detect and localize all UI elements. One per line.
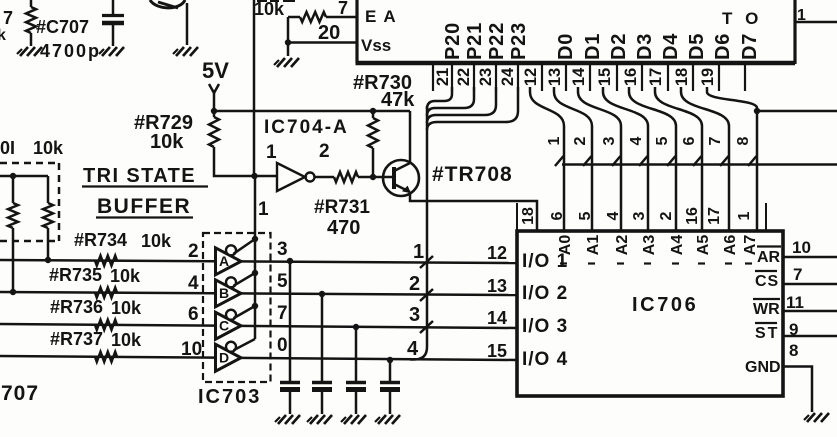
wire ST to right edge [783,335,837,338]
wire CS to right edge [783,283,837,286]
wire P22 curve to bus [427,87,496,123]
svg-text:10k: 10k [110,266,141,286]
resistor #R735 10k [95,288,117,298]
svg-text:14: 14 [487,308,507,328]
svg-text:24: 24 [499,67,517,86]
svg-text:Vss: Vss [361,36,391,55]
ground for capacitor on net 2 [310,415,318,424]
ground below top-left resistor [20,47,28,56]
bus entry tick net 7 on D6 [720,156,729,166]
wire enable branch to buffer D [234,339,256,350]
svg-text:470: 470 [327,217,360,239]
resistor (partial, top-left) with cut-off label 7 / k [26,7,36,33]
svg-text:D0: D0 [555,33,577,60]
svg-text:I/O 1: I/O 1 [522,251,568,272]
svg-text:2: 2 [572,136,589,145]
svg-text:4: 4 [407,338,419,360]
tri-state buffer A (IC703) [216,248,242,275]
wire enable branch to buffer B [234,273,256,286]
bus entry tick net 3 [420,321,433,333]
svg-text:3: 3 [409,304,420,326]
svg-text:CS: CS [755,273,779,290]
svg-text:#R736: #R736 [50,297,103,317]
svg-text:15: 15 [596,68,614,86]
svg-text:20: 20 [318,22,340,44]
svg-text:0: 0 [277,335,288,356]
svg-text:10k: 10k [254,0,285,19]
wire D2 from top IC pin to IC706 [578,87,621,231]
svg-text:D3: D3 [634,33,656,60]
svg-text:I/O 2: I/O 2 [522,283,568,304]
svg-text:6: 6 [549,211,566,220]
wire-number labels 1-8 on D0-D7 (rotated) [546,136,563,145]
wire P23 curve to bus [427,87,518,130]
wire net 3 right segment to IC706 [240,326,517,328]
ground below capacitor C707 [102,47,110,56]
ground for capacitor on net 3 [344,415,352,424]
wire rail inside left dashed box [0,175,48,178]
port labels P20-P23 (rotated) [442,22,464,60]
svg-text:P22: P22 [486,22,508,60]
tri-state buffer D (IC703) [216,344,242,371]
wire P20 curve to bus [427,87,452,109]
svg-text:3: 3 [631,211,648,220]
wire enable line from inverter-input node down into IC703 [254,176,257,339]
svg-text:7: 7 [707,136,724,145]
wire D5 from top IC pin to IC706 [655,87,702,231]
svg-text:5: 5 [277,271,288,292]
resistor #R736 10k [95,320,117,330]
wire Vss pin 20 to ground node [287,17,290,56]
wire EA pin 7 to IC [288,16,300,19]
svg-text:16: 16 [622,68,640,86]
wire WR to right edge [783,310,837,313]
wire enable branch to buffer C [234,306,256,318]
svg-text:D1: D1 [582,33,604,60]
svg-text:3: 3 [601,136,618,145]
svg-text:5: 5 [577,211,594,220]
wire R729 bottom to inverter input junction [214,147,255,176]
svg-text:18: 18 [520,207,537,225]
svg-text:10k: 10k [33,138,64,158]
svg-text:3: 3 [277,239,288,260]
svg-text:#R737: #R737 [50,329,103,349]
svg-text:10k: 10k [111,330,142,350]
wire net 1 left segment (input line) [0,260,214,261]
svg-text:23: 23 [477,68,495,86]
svg-text:IC704-A: IC704-A [264,117,349,138]
svg-text:22: 22 [455,68,473,86]
data labels D0-D7 (rotated) [555,33,577,60]
bus to right edge (nets 1-8) [562,163,837,166]
bus entry tick net 1 on D0 [555,156,564,166]
svg-text:2: 2 [409,273,420,295]
svg-text:D5: D5 [686,33,708,60]
svg-text:1: 1 [797,7,806,24]
svg-text:#TR708: #TR708 [432,163,513,186]
bus entry tick net 1 [420,256,433,268]
svg-text:1: 1 [258,199,269,220]
pin cell separators of top IC [432,63,434,91]
wire inverter input [254,175,277,178]
capacitor on net 3 [353,324,359,330]
svg-text:4: 4 [628,136,645,145]
ground for Vss / R728 [277,58,285,67]
resistor left pull-up B [47,176,50,203]
svg-text:#C707: #C707 [36,17,89,37]
svg-text:2: 2 [658,211,675,220]
address labels A0-A7 (rotated) [557,235,574,256]
svg-text:10k: 10k [150,131,184,153]
ground for IC706 GND [807,413,815,422]
wire emitter of partial transistor down [186,3,189,45]
wire net 1 right segment to IC706 [240,261,517,263]
wire net 3 left segment (input line) [0,324,214,326]
svg-text:A4: A4 [669,235,686,256]
svg-text:7: 7 [793,265,802,284]
IC706 pin numbers 18,6,5,4,3,2,16,17,1 (rotated) [520,207,537,225]
bus entry tick net 6 on D5 [693,156,702,166]
svg-text:ST: ST [755,325,779,342]
svg-text:A5: A5 [695,235,712,256]
svg-text:16: 16 [684,207,701,225]
wire net 4 right segment to IC706 [240,358,517,360]
svg-text:E A: E A [365,7,397,26]
dashed box IC703 [203,233,271,382]
svg-text:k: k [0,27,6,44]
wire 5V rail to transistor collector [214,110,410,113]
svg-text:2: 2 [188,241,199,262]
svg-text:I/O 4: I/O 4 [522,349,568,370]
svg-text:6: 6 [681,136,698,145]
svg-text:10: 10 [181,339,202,360]
wire AR to right edge [783,256,837,259]
svg-text:4: 4 [188,273,199,294]
capacitor on net 1 [287,258,293,264]
svg-text:1: 1 [266,142,277,163]
svg-text:I/O 3: I/O 3 [522,316,568,337]
IC top microcontroller outline [355,0,358,63]
tri-state buffer B (IC703) [216,280,242,307]
capacitor #C707 4700p [112,0,115,14]
wire net 4 left segment (input line) [0,356,214,358]
svg-text:5V: 5V [202,58,229,83]
svg-text:19: 19 [699,68,717,86]
svg-text:707: 707 [1,382,39,405]
svg-text:IC703: IC703 [198,386,261,408]
svg-text:13: 13 [487,276,507,296]
wire emitter down and right to IC706 pin 18 [410,192,537,231]
svg-text:10k: 10k [141,231,172,251]
svg-text:47k: 47k [381,89,415,111]
svg-text:GND: GND [745,359,781,376]
resistor #R728 10k on EA pin 7 [257,0,267,2]
svg-text:15: 15 [487,341,507,361]
bus vertical line (nets 1-4) [410,106,427,360]
wire enable branch to buffer A [234,239,256,254]
wire D4 from top IC pin to IC706 [629,87,676,231]
svg-text:13: 13 [546,68,564,86]
transistor (partial at top edge) [150,0,185,8]
svg-text:A3: A3 [641,235,658,256]
enable bubble buffer B [226,277,236,287]
tri-state buffer C (IC703) [216,312,242,339]
svg-text:11: 11 [786,293,804,312]
wire inverter output to R731 [315,176,335,179]
pin numbers 21 22 23 24 / 12-19 (rotated) [434,68,452,86]
svg-text:0I: 0I [0,138,15,158]
svg-text:18: 18 [673,68,691,86]
wire D1 from top IC pin to IC706 [554,87,592,231]
svg-text:D4: D4 [660,33,682,60]
resistor #R734 10k [95,256,117,266]
bus entry tick net 4 on D3 [639,156,648,166]
svg-text:7: 7 [3,8,13,28]
svg-text:12: 12 [487,243,507,263]
svg-text:17: 17 [706,207,723,225]
svg-text:WR: WR [753,301,780,318]
wire D3 from top IC pin to IC706 [603,87,648,231]
capacitor on net 4 [387,357,393,363]
svg-text:P20: P20 [442,22,464,60]
wire GND down to ground [783,367,812,413]
enable bubble buffer C [226,310,236,320]
wire D7 from top IC pin to IC706 [707,87,757,231]
dashed box (left, partial) [0,162,59,165]
svg-text:4: 4 [605,211,622,220]
svg-text:#R734: #R734 [74,230,127,250]
svg-text:12: 12 [522,68,540,86]
svg-text:10: 10 [792,238,811,257]
svg-text:1: 1 [546,136,563,145]
svg-text:7: 7 [277,303,288,324]
wire from top edge down to inverter input (node) [253,0,256,176]
svg-text:4700p: 4700p [40,41,101,61]
wire net 2 left segment (input line) [0,292,214,293]
bus entry tick net 2 on D1 [583,156,592,166]
svg-text:AR: AR [757,249,781,266]
svg-text:1: 1 [413,241,424,263]
svg-text:#R731: #R731 [314,197,370,218]
svg-text:T O: T O [722,9,762,28]
wire D7 branch to right edge at 5V rail level [754,108,760,114]
svg-text:A1: A1 [585,235,602,256]
svg-text:2: 2 [319,141,330,162]
svg-text:8: 8 [735,136,752,145]
svg-text:BUFFER: BUFFER [97,195,191,218]
bus entry tick net 2 [420,289,433,301]
svg-text:D6: D6 [712,33,734,60]
svg-text:21: 21 [434,68,452,86]
bus entry tick net 3 on D2 [612,156,621,166]
IC706 outline [517,231,783,396]
svg-text:A6: A6 [722,235,739,256]
ground for capacitor on net 1 [278,415,286,424]
wire D0 from top IC pin to IC706 [530,87,564,231]
bus entry tick net 5 on D4 [667,156,676,166]
svg-text:6: 6 [188,304,199,325]
capacitor on net 2 [319,291,325,297]
svg-text:17: 17 [647,68,665,86]
enable bubble buffer D [226,342,236,352]
svg-text:5: 5 [654,136,671,145]
IC706 top pin cell boundaries [516,203,518,231]
ground below partial transistor [176,47,184,56]
svg-text:8: 8 [789,341,798,360]
svg-text:A2: A2 [614,235,631,256]
svg-text:14: 14 [570,67,588,86]
svg-text:P23: P23 [508,22,530,60]
wire D6 from top IC pin to IC706 [681,87,729,231]
svg-text:TRI STATE: TRI STATE [83,165,196,187]
svg-text:D7: D7 [739,33,761,60]
wire collector to 5V rail [409,111,412,163]
wire net 2 right segment to IC706 [240,293,517,295]
bus entry tick net 8 on D7 [748,156,757,166]
resistor #R737 10k [95,352,117,362]
enable bubble buffer A [226,245,236,255]
resistor left pull-up A [12,176,15,203]
svg-text:7: 7 [338,0,348,18]
wire P21 curve to bus [427,87,474,116]
svg-text:1: 1 [736,211,753,220]
wire R731 to transistor base [358,176,396,179]
pin 1 wire to right edge [795,21,837,24]
ground for capacitor on net 4 [378,415,386,424]
svg-text:P21: P21 [464,22,486,60]
svg-text:D2: D2 [608,33,630,60]
svg-text:#R735: #R735 [49,265,102,285]
svg-text:10k: 10k [111,298,142,318]
svg-text:IC706: IC706 [632,294,698,316]
